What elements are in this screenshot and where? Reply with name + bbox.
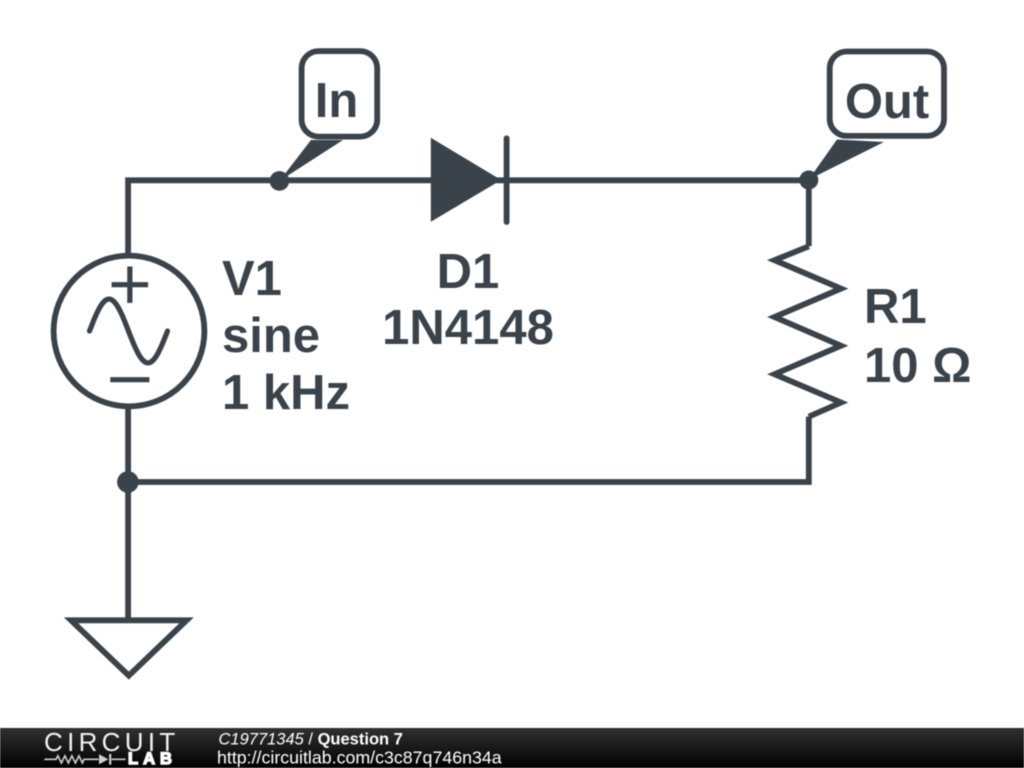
- svg-text:http://circuitlab.com/c3c87q74: http://circuitlab.com/c3c87q746n34a: [217, 747, 502, 767]
- svg-text:V1: V1: [222, 252, 282, 306]
- svg-text:In: In: [315, 74, 359, 128]
- svg-text:LAB: LAB: [128, 750, 177, 768]
- svg-text:Out: Out: [845, 75, 929, 129]
- svg-text:1 kHz: 1 kHz: [222, 366, 350, 420]
- svg-text:D1: D1: [437, 245, 500, 299]
- svg-text:R1: R1: [864, 280, 927, 334]
- svg-text:sine: sine: [222, 309, 320, 363]
- svg-text:1N4148: 1N4148: [382, 301, 554, 355]
- svg-text:C19771345 / Question 7: C19771345 / Question 7: [219, 731, 403, 749]
- svg-text:10 Ω: 10 Ω: [864, 339, 971, 393]
